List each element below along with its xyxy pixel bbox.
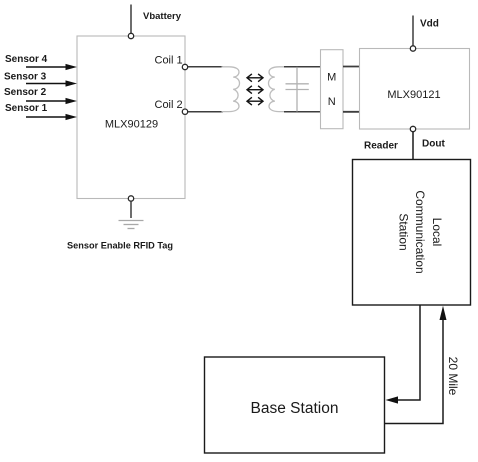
svg-text:Communication: Communication (413, 190, 427, 273)
inductor L2 reader coil (268, 67, 286, 112)
wire sensor 3 arrow (26, 80, 77, 86)
wire Coil 2 lead (188, 111, 223, 113)
svg-text:Base Station: Base Station (251, 400, 339, 417)
wire N to reader (343, 111, 360, 113)
wire Dout (412, 132, 414, 160)
wire station to base (386, 305, 421, 404)
svg-text:Sensor 1: Sensor 1 (5, 103, 48, 114)
wire sensor 2 arrow (26, 98, 77, 104)
local communication station box (353, 160, 471, 306)
base station box (205, 357, 385, 453)
label 20 Mile (446, 357, 460, 396)
svg-text:Local: Local (430, 218, 444, 247)
svg-text:M: M (327, 72, 336, 84)
ground (119, 221, 144, 229)
wire sensor 1 arrow (26, 114, 77, 120)
svg-text:Dout: Dout (422, 139, 445, 150)
svg-text:20 Mile: 20 Mile (446, 357, 460, 396)
svg-text:MLX90121: MLX90121 (387, 89, 440, 101)
svg-text:Sensor 2: Sensor 2 (4, 87, 47, 98)
node Coil 1 pin (182, 64, 187, 69)
reader box MLX90121 (360, 49, 470, 130)
wire reader coil top (284, 66, 321, 68)
wire Vdd (412, 16, 414, 47)
svg-text:Sensor 4: Sensor 4 (5, 54, 48, 65)
RFID tag box MLX90129 (77, 36, 185, 199)
svg-text:Sensor Enable RFID Tag: Sensor Enable RFID Tag (67, 241, 173, 251)
label Local Communication Station (397, 190, 445, 273)
svg-text:N: N (328, 96, 336, 108)
node Coil 2 pin (182, 109, 187, 114)
svg-text:Coil 1: Coil 1 (155, 55, 183, 67)
capacitor C1 plates (286, 84, 309, 90)
wire Vbattery (130, 5, 132, 34)
capacitor C1 vertical link (296, 67, 298, 112)
node Vbattery pin (128, 33, 133, 38)
inductor L1 tag coil (222, 67, 240, 112)
coupling arrow 3 (247, 97, 263, 105)
wire base to station (385, 306, 447, 424)
wire reader coil bottom (284, 111, 321, 113)
wire Coil 1 lead (188, 66, 223, 68)
node Vdd pin (410, 46, 415, 51)
node ground pin (128, 196, 133, 201)
wire sensor 4 arrow (26, 64, 77, 70)
svg-text:Vdd: Vdd (420, 19, 439, 30)
wire M to reader (343, 66, 360, 68)
svg-text:MLX90129: MLX90129 (105, 119, 158, 131)
svg-text:Sensor 3: Sensor 3 (4, 72, 47, 83)
svg-text:Coil 2: Coil 2 (155, 99, 183, 111)
coupling arrow 2 (247, 86, 263, 94)
wire ground stem (130, 201, 132, 218)
node Dout pin (410, 126, 415, 131)
matching box M N (321, 50, 344, 129)
svg-text:Reader: Reader (364, 141, 398, 152)
svg-text:Station: Station (397, 213, 411, 250)
coupling arrow 1 (247, 74, 263, 82)
svg-text:Vbattery: Vbattery (143, 11, 182, 22)
